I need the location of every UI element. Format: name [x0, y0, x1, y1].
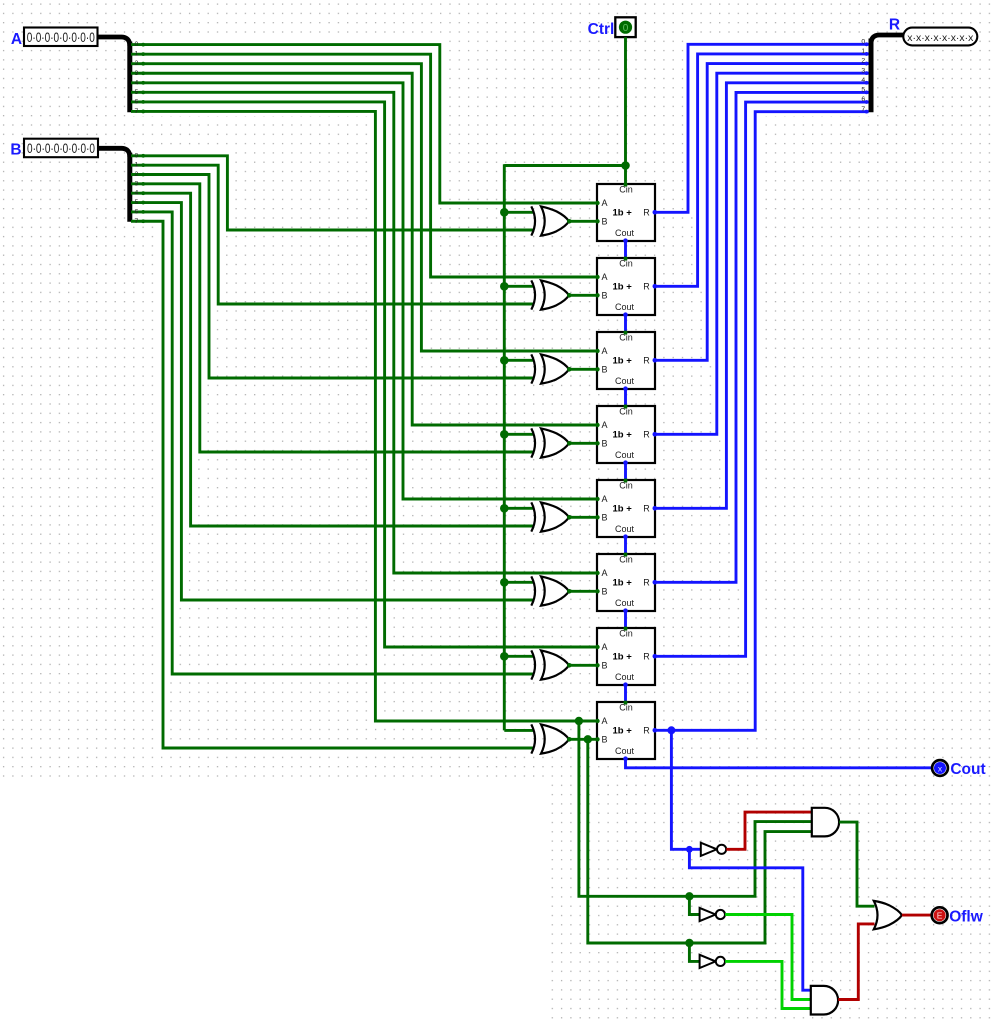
svg-text:3: 3: [135, 70, 139, 77]
svg-text:1b +: 1b +: [613, 282, 633, 293]
wire Ctrl vertical to junction: [624, 37, 627, 165]
svg-text:1b +: 1b +: [613, 578, 633, 589]
svg-text:5: 5: [135, 89, 139, 96]
pin dot U3 A: [595, 349, 599, 353]
wire A7 to AND1 middle: [579, 721, 812, 896]
junction Ctrl row 6: [500, 652, 509, 661]
svg-text:3: 3: [135, 180, 139, 187]
svg-text:Cout: Cout: [615, 228, 635, 238]
wire XOR7 output to adder B: [569, 664, 597, 667]
splitter SB pin 0 dot: [141, 154, 145, 158]
wire XOR5 output to adder B: [569, 516, 597, 519]
wire R bit 7: [655, 112, 869, 731]
svg-text:R: R: [643, 577, 650, 587]
pin dot U6 A: [595, 571, 599, 575]
svg-text:B: B: [602, 661, 608, 671]
svg-text:1: 1: [135, 162, 139, 169]
wire XOR1 output to adder B: [569, 220, 597, 223]
pin dot XOR6 output: [567, 589, 572, 594]
pin dot XOR3 output: [567, 367, 572, 372]
wire carry U7 Cout to U8 Cin: [624, 685, 627, 702]
inverter N3: [700, 955, 725, 968]
wire XOR2 output to adder B: [569, 294, 597, 297]
svg-text:4: 4: [861, 77, 865, 84]
output R value box: [903, 28, 977, 46]
junction Ctrl row 2: [500, 356, 509, 365]
splitter SR pin 0 dot: [865, 42, 869, 46]
svg-text:0: 0: [623, 23, 629, 34]
adder U8 1b+: [597, 702, 655, 759]
wire B bit 4: [131, 193, 535, 526]
svg-text:x·x·x·x·x·x·x·x: x·x·x·x·x·x·x·x: [907, 32, 974, 44]
wire carry U4 Cout to U5 Cin: [624, 463, 627, 480]
svg-text:0·0·0·0·0·0·0·0: 0·0·0·0·0·0·0·0: [27, 30, 95, 45]
splitter SR bar: [869, 39, 874, 113]
svg-text:A: A: [602, 642, 608, 652]
svg-text:A: A: [602, 346, 608, 356]
splitter SA pin 6 dot: [141, 100, 145, 104]
pin dot U6 Cout: [623, 608, 628, 613]
svg-text:1b +: 1b +: [613, 726, 633, 737]
pin dot U5 A: [595, 497, 599, 501]
wire Ctrl stub to XOR7: [504, 655, 534, 658]
pin dot U1 Cout: [623, 238, 628, 243]
wire R bit 1: [655, 54, 869, 286]
wire A bit 6: [131, 102, 597, 647]
svg-text:R: R: [889, 17, 900, 34]
pin dot U8 B: [595, 737, 599, 741]
pin dot U2 B: [595, 293, 599, 297]
svg-text:5: 5: [861, 87, 865, 94]
xor gate X4: [531, 428, 569, 457]
svg-text:A: A: [602, 420, 608, 430]
junction B7 tap: [584, 735, 592, 743]
wire R bit 4: [655, 83, 869, 509]
splitter SB pin 2 dot: [141, 173, 145, 177]
pin dot U5 Cin: [623, 478, 627, 482]
svg-text:B: B: [10, 141, 21, 158]
svg-text:R: R: [643, 207, 650, 217]
splitter SA pin 4 dot: [141, 81, 145, 85]
svg-text:3: 3: [861, 67, 865, 74]
pin dot U1 R: [653, 210, 658, 215]
pin dot U8 Cin: [623, 700, 627, 704]
svg-text:2: 2: [135, 171, 139, 178]
xor gate X1: [531, 206, 569, 235]
pin dot U1 A: [595, 201, 599, 205]
splitter SA pin 3 dot: [141, 71, 145, 75]
svg-text:R: R: [643, 503, 650, 513]
splitter SB pin 3 dot: [141, 182, 145, 186]
svg-text:5: 5: [135, 199, 139, 206]
junction Ctrl row 5: [500, 578, 509, 587]
wire A bit 0: [131, 45, 597, 203]
wire XOR6 output to adder B: [569, 590, 597, 593]
splitter SR pin 4 dot: [865, 81, 869, 85]
wire A bit 2: [131, 64, 597, 351]
wire A bit 1: [131, 54, 597, 277]
pin dot U4 R: [653, 432, 658, 437]
svg-text:0: 0: [135, 152, 139, 159]
junction Ctrl row 0: [500, 208, 509, 217]
wire A bit 3: [131, 73, 597, 425]
wire R7 junction to NOT1 input: [689, 848, 700, 851]
splitter SA bar: [127, 42, 132, 113]
wire NOT1 output to AND1 top: [726, 812, 812, 849]
pin dot XOR2 output: [567, 293, 572, 298]
splitter SR pin 7 dot: [865, 110, 869, 114]
svg-text:1: 1: [135, 51, 139, 58]
pin dot XOR8 output: [567, 737, 572, 742]
and gate AND2: [811, 986, 838, 1015]
pin dot U7 B: [595, 663, 599, 667]
adder U3 1b+: [597, 332, 655, 389]
adder U2 1b+: [597, 258, 655, 315]
wire Ctrl junction to xor column: [504, 164, 625, 167]
splitter SA pin 0 dot: [141, 43, 145, 47]
splitter SR pin 6 dot: [865, 100, 869, 104]
white zone splitter A fanout: [129, 40, 444, 116]
adder U4 1b+: [597, 406, 655, 463]
splitter SA pin 5 dot: [141, 90, 145, 94]
wire R7 tap down to NOT1 row: [671, 730, 689, 849]
svg-text:B: B: [602, 513, 608, 523]
wire B bit 1: [131, 165, 535, 304]
pin dot U8 R: [653, 728, 658, 733]
junction Ctrl row 1: [500, 282, 509, 291]
pin dot U4 A: [595, 423, 599, 427]
pin dot U4 B: [595, 441, 599, 445]
wire Ctrl stub to XOR6: [504, 581, 534, 584]
svg-text:Cout: Cout: [615, 524, 635, 534]
pin dot U2 Cin: [623, 256, 627, 260]
splitter SA pin 7 dot: [141, 110, 145, 114]
splitter SA pin 1 dot: [141, 52, 145, 56]
pin dot U3 Cin: [623, 330, 627, 334]
pin dot U5 B: [595, 515, 599, 519]
splitter SB pin 6 dot: [141, 210, 145, 214]
pin dot U4 Cin: [623, 404, 627, 408]
wire AND2 output to OR bottom: [838, 924, 874, 1000]
wire B7 junction to NOT3 input: [689, 943, 699, 961]
junction R7 at NOT1: [686, 846, 693, 853]
wire AND1 output to OR top: [839, 822, 874, 906]
svg-text:Cout: Cout: [615, 450, 635, 460]
svg-text:6: 6: [135, 208, 139, 215]
svg-text:A: A: [602, 272, 608, 282]
bus wire input A to splitter SA: [98, 37, 130, 46]
splitter SR pin 1 dot: [865, 52, 869, 56]
wire R bit 6: [655, 102, 869, 656]
svg-text:A: A: [11, 31, 22, 48]
svg-text:B: B: [602, 587, 608, 597]
pin dot U5 R: [653, 506, 658, 511]
svg-text:Ctrl: Ctrl: [588, 21, 615, 38]
wire carry U1 Cout to U2 Cin: [624, 241, 627, 258]
junction A7 to NOT2: [685, 892, 693, 900]
xor gate X3: [531, 354, 569, 383]
pin dot U8 Cout: [623, 756, 628, 761]
svg-text:Oflw: Oflw: [949, 908, 984, 925]
wire carry U6 Cout to U7 Cin: [624, 611, 627, 628]
wire Ctrl stub to XOR5: [504, 507, 534, 510]
svg-text:1b +: 1b +: [613, 504, 633, 515]
adder U1 1b+: [597, 184, 655, 241]
and gate AND1: [812, 808, 839, 837]
splitter SB pin 4 dot: [141, 191, 145, 195]
pin dot U8 A: [595, 719, 599, 723]
junction Ctrl row 3: [500, 430, 509, 439]
splitter SB pin 7 dot: [141, 219, 145, 223]
splitter SB bar: [127, 153, 132, 222]
svg-text:2: 2: [861, 58, 865, 65]
svg-text:7: 7: [135, 108, 139, 115]
svg-text:1b +: 1b +: [613, 208, 633, 219]
wire Ctrl stub to XOR1: [504, 211, 534, 214]
white zone splitter B fanout: [129, 151, 235, 225]
pin dot U5 Cout: [623, 534, 628, 539]
svg-text:7: 7: [135, 218, 139, 225]
svg-text:4: 4: [135, 79, 139, 86]
output Oflw symbol: [932, 907, 948, 923]
svg-text:1: 1: [861, 48, 865, 55]
wire NOT2 output to AND2 middle: [725, 915, 811, 1000]
svg-text:B: B: [602, 439, 608, 449]
svg-text:A: A: [602, 568, 608, 578]
svg-text:Cout: Cout: [615, 376, 635, 386]
svg-text:Cout: Cout: [615, 598, 635, 608]
svg-text:A: A: [602, 494, 608, 504]
svg-text:B: B: [602, 735, 608, 745]
wire B bit 7: [131, 221, 535, 748]
svg-text:R: R: [643, 725, 650, 735]
pin dot U6 R: [653, 580, 658, 585]
wire B bit 2: [131, 175, 535, 379]
wire A bit 5: [131, 92, 597, 573]
svg-text:R: R: [643, 355, 650, 365]
wire B bit 3: [131, 184, 535, 452]
input A value box: [24, 28, 98, 47]
wire B bit 6: [131, 212, 535, 674]
junction A7 tap: [575, 717, 583, 725]
pin dot U1 B: [595, 219, 599, 223]
svg-text:6: 6: [135, 98, 139, 105]
splitter SR pin 5 dot: [865, 91, 869, 95]
wire R bit 5: [655, 92, 869, 582]
adder U7 1b+: [597, 628, 655, 685]
wire Ctrl stub to XOR4: [504, 433, 534, 436]
svg-text:0: 0: [135, 41, 139, 48]
svg-text:1b +: 1b +: [613, 356, 633, 367]
svg-text:6: 6: [861, 96, 865, 103]
splitter SB pin 5 dot: [141, 201, 145, 205]
pin dot U6 Cin: [623, 552, 627, 556]
bus wire splitter SR to output R: [871, 35, 903, 44]
wire R bit 0: [655, 44, 869, 212]
adder U5 1b+: [597, 480, 655, 537]
pin dot XOR1 output: [567, 219, 572, 224]
pin dot U7 R: [653, 654, 658, 659]
splitter SR pin 3 dot: [865, 71, 869, 75]
wire Ctrl stub to XOR3: [504, 359, 534, 362]
wire NOT3 output to AND2 bottom: [725, 961, 811, 1008]
svg-text:0: 0: [861, 39, 865, 46]
pin dot U2 R: [653, 284, 658, 289]
pin dot U6 B: [595, 589, 599, 593]
inverter N1: [701, 843, 726, 856]
pin dot U7 Cin: [623, 626, 627, 630]
dot grid background upper: [0, 0, 995, 780]
wire U8 Cout to output Cout: [626, 759, 932, 768]
pin dot U1 Cin: [623, 182, 627, 186]
wire A bit 4: [131, 83, 597, 499]
svg-text:R: R: [643, 429, 650, 439]
wire XOR8 output to adder B: [569, 738, 597, 741]
pin dot XOR5 output: [567, 515, 572, 520]
wire Ctrl elbow to XOR8: [504, 729, 534, 732]
splitter SB pin 1 dot: [141, 163, 145, 167]
svg-text:R: R: [643, 281, 650, 291]
splitter SR pin 2 dot: [865, 62, 869, 66]
white zone splitter R fanout: [683, 40, 871, 116]
pin dot U2 A: [595, 275, 599, 279]
xor gate X5: [531, 502, 569, 531]
wire R bit 3: [655, 73, 869, 434]
svg-text:Cout: Cout: [615, 672, 635, 682]
svg-text:4: 4: [135, 190, 139, 197]
svg-text:E: E: [937, 910, 943, 920]
output Cout symbol: [932, 760, 948, 776]
xor gate X7: [531, 650, 569, 679]
junction Ctrl row 4: [500, 504, 509, 513]
input Ctrl box: [615, 17, 635, 37]
wire Ctrl stub to XOR2: [504, 285, 534, 288]
wire Ctrl junction to U1 Cin: [624, 166, 627, 185]
wire OR1 output to Oflw: [902, 914, 932, 917]
junction Ctrl node: [621, 161, 630, 170]
wire R7 to AND2 top: [689, 849, 810, 990]
or gate OR1: [874, 901, 902, 929]
svg-text:2: 2: [135, 60, 139, 67]
wire Ctrl distribution vertical: [503, 164, 506, 730]
svg-text:B: B: [602, 291, 608, 301]
xor gate X2: [531, 280, 569, 309]
svg-text:A: A: [602, 198, 608, 208]
wire carry U2 Cout to U3 Cin: [624, 315, 627, 332]
svg-text:Cout: Cout: [615, 302, 635, 312]
wire B bit 5: [131, 203, 535, 600]
pin dot U4 Cout: [623, 460, 628, 465]
inverter N2: [700, 908, 725, 921]
pin dot XOR4 output: [567, 441, 572, 446]
pin dot U3 R: [653, 358, 658, 363]
pin dot U7 Cout: [623, 682, 628, 687]
adder U6 1b+: [597, 554, 655, 611]
junction B7 to NOT3: [685, 939, 693, 947]
wire XOR4 output to adder B: [569, 442, 597, 445]
xor gate X8: [531, 724, 569, 753]
pin dot U3 B: [595, 367, 599, 371]
pin dot U3 Cout: [623, 386, 628, 391]
bus wire input B to splitter SB: [98, 148, 130, 157]
input B value box: [24, 139, 98, 158]
wire B bit 0: [131, 156, 535, 230]
svg-text:Cout: Cout: [615, 746, 635, 756]
wire XOR3 output to adder B: [569, 368, 597, 371]
pin dot U7 A: [595, 645, 599, 649]
wire A bit 7: [131, 111, 597, 721]
wire carry U5 Cout to U6 Cin: [624, 537, 627, 554]
svg-text:B: B: [602, 365, 608, 375]
splitter SA pin 2 dot: [141, 62, 145, 66]
xor gate X6: [531, 576, 569, 605]
pin dot U2 Cout: [623, 312, 628, 317]
svg-text:A: A: [602, 716, 608, 726]
junction R7 tap: [667, 726, 675, 734]
wire B7 to AND1 bottom: [588, 739, 812, 943]
svg-text:1b +: 1b +: [613, 430, 633, 441]
dot grid background lower right: [549, 780, 995, 1024]
svg-text:B: B: [602, 217, 608, 227]
svg-text:7: 7: [861, 106, 865, 113]
svg-text:R: R: [643, 651, 650, 661]
wire R bit 2: [655, 64, 869, 361]
wire carry U3 Cout to U4 Cin: [624, 389, 627, 406]
pin dot XOR7 output: [567, 663, 572, 668]
svg-text:1b +: 1b +: [613, 652, 633, 663]
wire A7 junction to NOT2 input: [689, 896, 699, 914]
svg-text:0·0·0·0·0·0·0·0: 0·0·0·0·0·0·0·0: [27, 141, 95, 156]
svg-text:Cout: Cout: [950, 761, 985, 778]
